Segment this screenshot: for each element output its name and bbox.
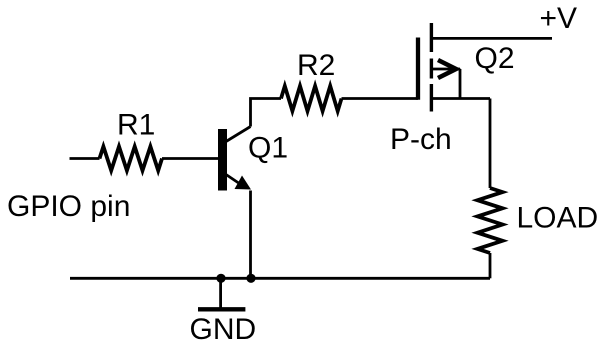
wire GPIO input [70,157,100,160]
wire R2 to Q2 gate [342,97,419,100]
wire LOAD down to rail [489,253,492,278]
svg-text:Q2: Q2 [475,42,515,75]
transistor Q1 base bar [218,129,227,191]
transistor Q2 channel bottom dash [430,84,433,112]
transistor Q1 emitter arrowhead [235,176,252,190]
ground bar [198,307,245,311]
wire Q2 body down to drain [459,69,462,99]
wire Q1 collector up [251,99,282,127]
svg-text:P-ch: P-ch [390,123,452,156]
wire Q2 drain right [431,97,490,100]
wire R1 to Q1 base [162,157,218,160]
resistor R1 [100,147,163,171]
svg-text:LOAD: LOAD [517,202,599,235]
svg-text:GND: GND [190,313,257,346]
resistor LOAD [478,188,503,253]
transistor Q1 emitter diagonal [226,175,246,189]
node junction dot right [246,274,255,283]
transistor Q1 collector diagonal [226,127,251,142]
svg-text:+V: +V [540,2,578,35]
node junction dot left [216,274,225,283]
svg-text:R2: R2 [297,49,335,82]
resistor R2 [281,86,342,111]
svg-text:GPIO pin: GPIO pin [7,190,130,223]
transistor Q2 channel middle dash [430,59,433,79]
svg-text:Q1: Q1 [248,132,288,165]
wire ground rail [70,277,490,280]
wire Q2 source to +V [431,37,552,40]
ground stub [219,278,222,308]
svg-text:R1: R1 [117,109,155,142]
wire Q1 emitter down [249,191,252,279]
transistor Q2 channel top dash [430,23,433,52]
transistor Q2 body arrowhead [438,60,456,78]
transistor Q2 body arrow line [431,68,460,71]
wire drain down to LOAD [489,99,492,189]
transistor Q2 gate bar [416,38,420,100]
